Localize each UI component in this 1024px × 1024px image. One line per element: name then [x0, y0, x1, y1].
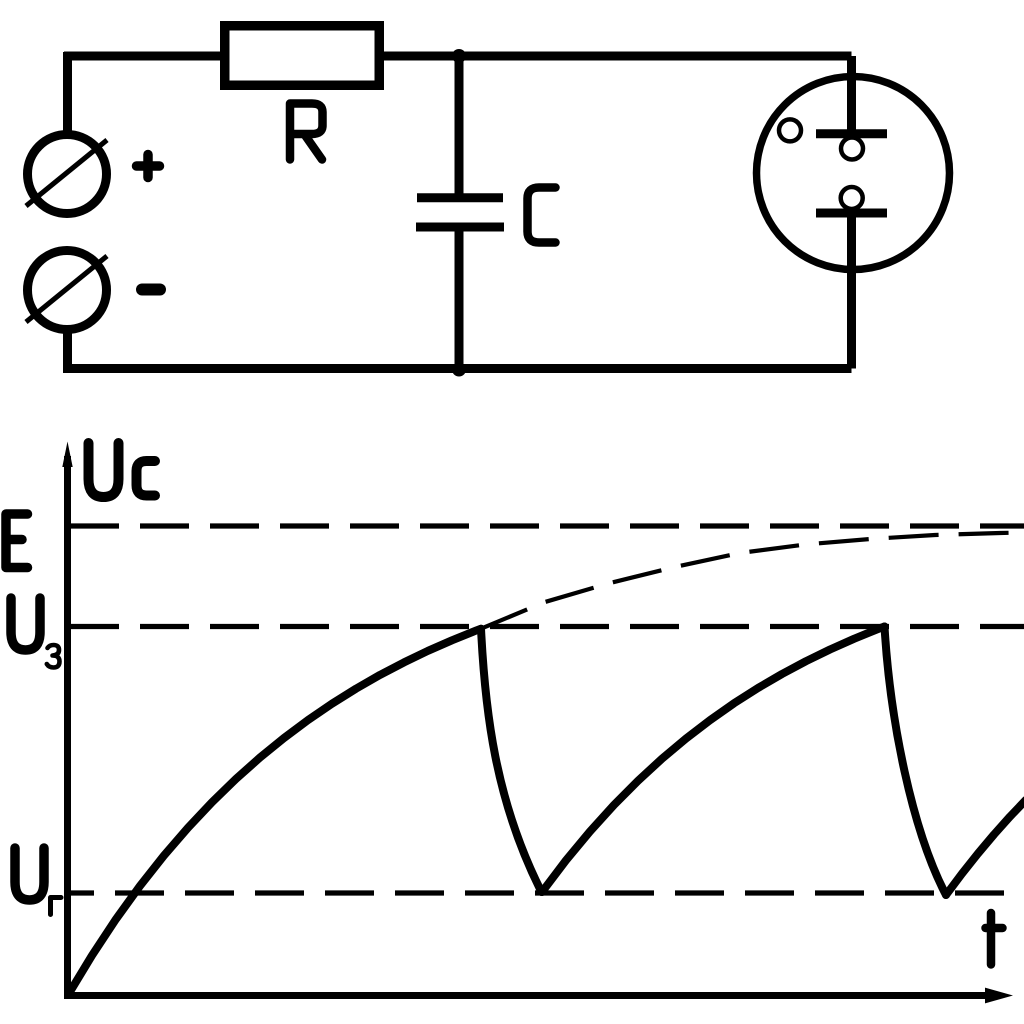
graph Y axis: [64, 456, 71, 999]
curve Uc charging 1: [68, 629, 481, 995]
terminal X2 circle: [28, 251, 107, 330]
wire lamp right vertical bottom: [847, 213, 856, 369]
neon lamp top electrode dot: [841, 138, 863, 160]
capacitor C bottom plate: [416, 223, 504, 232]
label C: [528, 188, 556, 243]
label plus: [137, 155, 160, 178]
terminal X1 slash: [26, 140, 107, 206]
terminal X1 circle: [28, 135, 107, 214]
label minus: [142, 284, 160, 296]
wire top-left vertical: [63, 56, 72, 131]
wire top bus left: [64, 52, 220, 60]
dashed level line U3: [70, 624, 1024, 629]
junction node bottom: [452, 363, 466, 377]
terminal X2 slash: [26, 256, 107, 322]
wire bottom bus: [64, 364, 852, 373]
label E: [6, 514, 28, 568]
wire capacitor bottom: [455, 227, 464, 369]
dashed level line E: [70, 523, 1024, 528]
label Ug: [15, 848, 44, 900]
curve charging 3: [946, 800, 1024, 895]
graph X axis arrowhead: [985, 988, 1013, 1004]
neon lamp HL1 envelope: [757, 77, 950, 270]
wire top bus right: [384, 52, 852, 61]
neon lamp bottom electrode: [816, 209, 887, 218]
dashed exponential continuation: [481, 533, 1024, 629]
capacitor C top plate: [417, 193, 503, 202]
neon lamp bottom electrode dot: [841, 187, 863, 209]
neon lamp gas dot: [779, 119, 801, 141]
junction node top: [452, 49, 466, 63]
dashed level line Ug: [70, 890, 1024, 895]
resistor R: [225, 26, 380, 86]
wire capacitor top: [455, 56, 464, 194]
wire lamp right vertical top: [847, 56, 856, 134]
label t: [986, 913, 1003, 965]
label U3: [11, 598, 40, 650]
curve discharge 1: [481, 629, 542, 892]
label R: [290, 104, 323, 160]
curve charging 2: [542, 627, 885, 893]
graph Y axis arrowhead: [62, 442, 72, 468]
label Uc: [89, 443, 156, 497]
graph X axis: [64, 992, 998, 999]
curve discharge 2: [885, 627, 947, 896]
neon lamp top electrode: [816, 129, 887, 138]
wire bottom-left vertical: [64, 332, 71, 373]
